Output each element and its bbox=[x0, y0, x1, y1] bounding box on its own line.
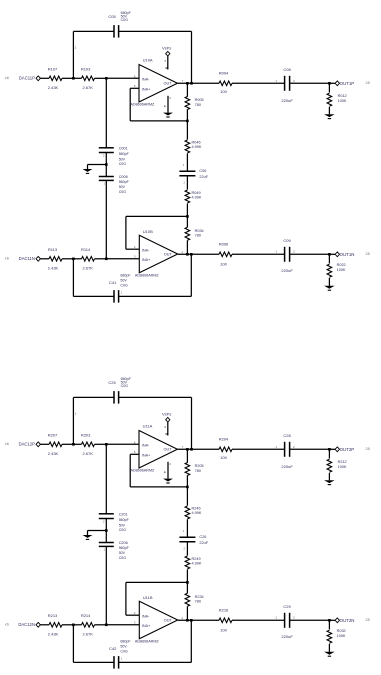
ground bbox=[324, 652, 335, 655]
svg-text:U11B: U11B bbox=[143, 595, 153, 600]
svg-text:4: 4 bbox=[169, 96, 171, 100]
svg-text:OUT: OUT bbox=[164, 253, 173, 257]
junction bbox=[186, 82, 189, 85]
svg-text:50V: 50V bbox=[120, 279, 127, 283]
resistor R032 100K shunt bbox=[328, 620, 330, 629]
svg-text:28: 28 bbox=[366, 618, 370, 622]
wire bbox=[72, 397, 74, 444]
port OUT1N bbox=[329, 253, 335, 255]
svg-text:100K: 100K bbox=[338, 99, 347, 103]
capacitor C206 560pF bbox=[105, 531, 107, 543]
svg-text:5: 5 bbox=[134, 84, 136, 88]
svg-text:C0G: C0G bbox=[121, 18, 129, 22]
svg-text:R214: R214 bbox=[81, 613, 91, 618]
svg-text:2: 2 bbox=[293, 616, 295, 620]
svg-text:2.67K: 2.67K bbox=[82, 266, 93, 271]
svg-text:1: 1 bbox=[103, 181, 105, 185]
svg-text:680pF: 680pF bbox=[120, 273, 131, 277]
junction bbox=[105, 258, 108, 261]
svg-text:INA-: INA- bbox=[142, 444, 150, 448]
svg-text:22uF: 22uF bbox=[199, 541, 208, 545]
svg-text:50V: 50V bbox=[120, 645, 127, 649]
ground bbox=[324, 114, 335, 117]
svg-text:1: 1 bbox=[181, 250, 183, 254]
capacitor C006 560pF bbox=[105, 165, 107, 177]
junction bbox=[328, 619, 331, 622]
svg-text:R114: R114 bbox=[81, 247, 91, 252]
svg-text:220uF: 220uF bbox=[281, 98, 293, 103]
svg-text:C08: C08 bbox=[283, 67, 291, 72]
ground bbox=[167, 462, 169, 479]
resistor R049 4.99K bbox=[186, 176, 188, 190]
resistor R005 780 bbox=[186, 83, 188, 96]
svg-text:2: 2 bbox=[103, 153, 105, 157]
svg-text:OUT2P: OUT2P bbox=[340, 447, 355, 452]
ground bbox=[324, 286, 335, 289]
svg-text:DAC12P: DAC12P bbox=[19, 442, 35, 447]
svg-text:4: 4 bbox=[169, 462, 171, 466]
resistor R012 100K shunt bbox=[328, 83, 330, 92]
svg-text:1: 1 bbox=[183, 529, 185, 533]
svg-text:INA+: INA+ bbox=[142, 453, 151, 457]
capacitor C05 680pF bbox=[73, 30, 114, 32]
svg-text:2.43K: 2.43K bbox=[48, 451, 59, 456]
wire bbox=[106, 258, 139, 260]
svg-text:1: 1 bbox=[121, 291, 123, 295]
svg-text:100: 100 bbox=[220, 455, 227, 460]
wire bbox=[178, 619, 219, 621]
junction bbox=[328, 253, 331, 256]
svg-text:560pF: 560pF bbox=[119, 546, 130, 550]
resistor R203 2.67K bbox=[73, 443, 81, 445]
wire bbox=[72, 259, 74, 297]
resistor R204 100 bbox=[219, 447, 232, 452]
svg-text:3: 3 bbox=[134, 255, 136, 259]
svg-text:C25: C25 bbox=[108, 380, 116, 385]
svg-text:100: 100 bbox=[220, 627, 227, 632]
svg-text:C0G: C0G bbox=[121, 384, 129, 388]
junction bbox=[328, 82, 331, 85]
svg-text:R004: R004 bbox=[219, 71, 229, 76]
svg-text:x6: x6 bbox=[5, 76, 9, 80]
svg-text:560pF: 560pF bbox=[119, 518, 130, 522]
svg-text:R107: R107 bbox=[48, 67, 58, 72]
svg-text:AD8606ARMZ: AD8606ARMZ bbox=[131, 468, 156, 472]
wire bbox=[177, 82, 219, 84]
svg-text:INA+: INA+ bbox=[142, 87, 151, 91]
svg-text:7: 7 bbox=[182, 79, 184, 83]
op-amp U10A AD8606ARMZ bbox=[139, 65, 177, 103]
wire bbox=[40, 443, 42, 445]
svg-text:680pF: 680pF bbox=[120, 639, 131, 643]
junction bbox=[186, 253, 189, 256]
svg-text:INA+: INA+ bbox=[142, 624, 151, 628]
capacitor C25 680pF bbox=[73, 396, 114, 398]
junction bbox=[105, 624, 108, 627]
svg-text:R022: R022 bbox=[337, 263, 346, 267]
resistor R004 100 bbox=[219, 81, 232, 86]
port OUT2P bbox=[329, 448, 335, 450]
resistor R034 780 bbox=[186, 216, 188, 227]
wire bbox=[72, 31, 74, 78]
svg-text:2.67K: 2.67K bbox=[82, 85, 93, 90]
svg-text:4.99K: 4.99K bbox=[192, 511, 202, 515]
svg-text:1: 1 bbox=[275, 445, 277, 449]
capacitor C29 220uF bbox=[284, 613, 286, 628]
junction bbox=[105, 163, 108, 166]
svg-text:2: 2 bbox=[293, 250, 295, 254]
capacitor C42 680pF bbox=[119, 661, 192, 663]
resistor R006 100 bbox=[219, 252, 232, 257]
svg-text:C206: C206 bbox=[119, 541, 128, 545]
svg-text:1: 1 bbox=[183, 163, 185, 167]
svg-text:R205: R205 bbox=[195, 464, 204, 468]
resistor R207 2.43K bbox=[43, 443, 50, 445]
junction bbox=[105, 443, 108, 446]
svg-text:C001: C001 bbox=[119, 146, 128, 150]
svg-text:R032: R032 bbox=[337, 629, 346, 633]
svg-text:2.67K: 2.67K bbox=[82, 632, 93, 637]
resistor R249 4.99K bbox=[186, 542, 188, 556]
op-amp U10B AD8606ARMZ bbox=[139, 235, 177, 273]
capacitor C28 220uF bbox=[284, 442, 286, 457]
resistor R103 2.67K bbox=[73, 77, 81, 79]
svg-text:C0G: C0G bbox=[120, 284, 128, 288]
svg-text:3: 3 bbox=[134, 621, 136, 625]
svg-text:1: 1 bbox=[275, 250, 277, 254]
capacitor C001 560pF bbox=[99, 147, 114, 149]
svg-text:C0G: C0G bbox=[120, 650, 128, 654]
svg-text:2: 2 bbox=[293, 79, 295, 83]
svg-text:R234: R234 bbox=[195, 595, 204, 599]
svg-text:2.43K: 2.43K bbox=[48, 632, 59, 637]
svg-text:x6: x6 bbox=[5, 442, 9, 446]
svg-text:C09: C09 bbox=[283, 238, 291, 243]
svg-text:560pF: 560pF bbox=[119, 152, 130, 156]
wire bbox=[105, 519, 107, 531]
resistor R246 4.99K bbox=[186, 487, 188, 506]
svg-text:50V: 50V bbox=[119, 185, 126, 189]
svg-text:8: 8 bbox=[164, 425, 166, 429]
svg-text:1: 1 bbox=[275, 616, 277, 620]
wire bbox=[105, 546, 107, 624]
resistor R213 2.43K bbox=[40, 624, 49, 626]
junction node A bbox=[186, 486, 189, 489]
op-amp IN- feedback wire bbox=[126, 248, 139, 250]
wire bbox=[106, 77, 139, 79]
svg-text:100: 100 bbox=[220, 261, 227, 266]
svg-text:R249: R249 bbox=[192, 557, 201, 561]
svg-text:OUT: OUT bbox=[164, 448, 173, 452]
svg-text:AD8606ARMZ: AD8606ARMZ bbox=[131, 102, 156, 106]
op-amp IN+ feedback wire bbox=[130, 453, 139, 455]
svg-text:C41: C41 bbox=[109, 280, 117, 285]
svg-text:2: 2 bbox=[184, 181, 186, 185]
svg-text:22uF: 22uF bbox=[199, 175, 208, 179]
svg-text:C42: C42 bbox=[109, 646, 117, 651]
wire bbox=[191, 31, 193, 83]
svg-text:VsPs: VsPs bbox=[162, 45, 171, 50]
resistor R114 2.67K bbox=[73, 258, 81, 260]
svg-text:VsPs: VsPs bbox=[162, 411, 171, 416]
svg-text:OUT2N: OUT2N bbox=[340, 618, 355, 623]
op-amp U11B AD8606ARMZ bbox=[139, 601, 177, 639]
resistor R234 780 bbox=[186, 582, 188, 593]
op-amp U11A AD8606ARMZ bbox=[139, 431, 177, 469]
svg-text:R049: R049 bbox=[192, 191, 201, 195]
junction node A bbox=[186, 120, 189, 123]
svg-text:x6: x6 bbox=[5, 623, 9, 627]
resistor R212 100K shunt bbox=[328, 449, 330, 458]
svg-text:780: 780 bbox=[195, 233, 201, 237]
svg-text:AD8606ARMZ: AD8606ARMZ bbox=[135, 639, 160, 643]
svg-text:C29: C29 bbox=[283, 604, 291, 609]
svg-text:x6: x6 bbox=[5, 257, 9, 261]
svg-text:C26: C26 bbox=[199, 535, 206, 539]
svg-text:8: 8 bbox=[164, 59, 166, 63]
port OUT2N bbox=[329, 619, 335, 621]
svg-text:INA-: INA- bbox=[142, 78, 150, 82]
svg-text:4.99K: 4.99K bbox=[192, 196, 202, 200]
op-amp IN- feedback wire bbox=[126, 614, 139, 616]
svg-text:R034: R034 bbox=[195, 229, 204, 233]
resistor R046 4.99K bbox=[186, 121, 188, 140]
svg-text:R212: R212 bbox=[338, 460, 347, 464]
junction node B bbox=[186, 581, 189, 584]
svg-text:780: 780 bbox=[195, 103, 201, 107]
svg-text:OUT1N: OUT1N bbox=[340, 252, 355, 257]
resistor R113 2.43K bbox=[40, 258, 49, 260]
capacitor C26 22uF bbox=[179, 536, 195, 538]
svg-text:OUT: OUT bbox=[164, 619, 173, 623]
svg-text:U10A: U10A bbox=[143, 57, 153, 62]
wire bbox=[106, 443, 139, 445]
svg-text:R046: R046 bbox=[192, 141, 201, 145]
svg-text:5: 5 bbox=[134, 450, 136, 454]
capacitor C41 680pF bbox=[119, 295, 192, 297]
svg-text:DAC11N: DAC11N bbox=[19, 256, 35, 261]
junction node B bbox=[186, 215, 189, 218]
svg-text:R207: R207 bbox=[48, 433, 58, 438]
capacitor C09 220uF bbox=[284, 247, 286, 262]
svg-text:U11A: U11A bbox=[143, 423, 153, 428]
svg-text:AD8606ARMZ: AD8606ARMZ bbox=[135, 273, 160, 277]
svg-text:DAC11P: DAC11P bbox=[19, 76, 35, 81]
svg-text:INA-: INA- bbox=[142, 248, 150, 252]
capacitor C201 560pF bbox=[99, 513, 114, 515]
wire bbox=[105, 78, 107, 148]
svg-text:2: 2 bbox=[103, 519, 105, 523]
svg-text:C0G: C0G bbox=[119, 190, 127, 194]
ground bbox=[88, 530, 107, 532]
svg-text:1: 1 bbox=[103, 547, 105, 551]
ground bbox=[88, 164, 107, 166]
svg-text:28: 28 bbox=[366, 252, 370, 256]
svg-text:780: 780 bbox=[195, 469, 201, 473]
svg-text:OUT: OUT bbox=[164, 82, 173, 86]
junction bbox=[186, 448, 189, 451]
svg-text:1: 1 bbox=[181, 616, 183, 620]
svg-text:100K: 100K bbox=[337, 634, 346, 638]
svg-text:R006: R006 bbox=[219, 242, 229, 247]
resistor R214 2.67K bbox=[73, 624, 81, 626]
svg-text:28: 28 bbox=[366, 81, 370, 85]
wire bbox=[106, 624, 139, 626]
resistor R107 2.43K bbox=[43, 77, 50, 79]
svg-text:100: 100 bbox=[220, 89, 227, 94]
resistor R205 780 bbox=[186, 449, 188, 462]
junction bbox=[328, 448, 331, 451]
svg-text:220uF: 220uF bbox=[281, 268, 293, 273]
svg-text:2: 2 bbox=[75, 412, 77, 416]
capacitor C08 220uF bbox=[284, 76, 286, 91]
svg-text:2: 2 bbox=[293, 445, 295, 449]
resistor R022 100K shunt bbox=[328, 254, 330, 263]
svg-text:C0G: C0G bbox=[119, 528, 127, 532]
svg-text:C28: C28 bbox=[283, 433, 291, 438]
svg-text:R012: R012 bbox=[338, 94, 347, 98]
svg-text:28: 28 bbox=[366, 447, 370, 451]
wire bbox=[178, 253, 219, 255]
wire bbox=[105, 180, 107, 258]
svg-text:100K: 100K bbox=[338, 465, 347, 469]
svg-text:R005: R005 bbox=[195, 98, 204, 102]
svg-text:C0G: C0G bbox=[119, 162, 127, 166]
svg-text:1: 1 bbox=[275, 79, 277, 83]
svg-text:C0G: C0G bbox=[119, 556, 127, 560]
svg-text:7: 7 bbox=[182, 445, 184, 449]
svg-text:R246: R246 bbox=[192, 507, 201, 511]
svg-text:R216: R216 bbox=[219, 608, 229, 613]
svg-text:50V: 50V bbox=[119, 523, 126, 527]
svg-text:C006: C006 bbox=[119, 175, 128, 179]
junction bbox=[105, 77, 108, 80]
svg-text:C06: C06 bbox=[199, 169, 206, 173]
svg-text:2.67K: 2.67K bbox=[82, 451, 93, 456]
wire bbox=[105, 153, 107, 165]
svg-text:50V: 50V bbox=[119, 551, 126, 555]
svg-text:OUT1P: OUT1P bbox=[340, 81, 355, 86]
ground bbox=[324, 480, 335, 483]
svg-text:100K: 100K bbox=[337, 268, 346, 272]
svg-text:U10B: U10B bbox=[143, 229, 153, 234]
svg-text:R113: R113 bbox=[48, 247, 58, 252]
svg-text:2.43K: 2.43K bbox=[48, 85, 59, 90]
op-amp IN+ feedback wire bbox=[130, 87, 139, 89]
wire bbox=[191, 397, 193, 449]
junction bbox=[186, 619, 189, 622]
junction bbox=[72, 258, 75, 261]
wire bbox=[105, 444, 107, 514]
svg-text:1: 1 bbox=[121, 657, 123, 661]
svg-text:4.99K: 4.99K bbox=[192, 145, 202, 149]
svg-text:560pF: 560pF bbox=[119, 180, 130, 184]
svg-text:4.99K: 4.99K bbox=[192, 562, 202, 566]
junction bbox=[72, 443, 75, 446]
capacitor C06 22uF bbox=[179, 170, 195, 172]
svg-text:R213: R213 bbox=[48, 613, 58, 618]
wire bbox=[40, 77, 42, 79]
svg-text:INA-: INA- bbox=[142, 614, 150, 618]
wire bbox=[177, 448, 219, 450]
wire bbox=[190, 254, 192, 296]
svg-text:R203: R203 bbox=[81, 433, 91, 438]
svg-text:2: 2 bbox=[184, 547, 186, 551]
svg-text:INA+: INA+ bbox=[142, 258, 151, 262]
junction bbox=[105, 529, 108, 532]
svg-text:R103: R103 bbox=[81, 67, 91, 72]
svg-text:DAC12N: DAC12N bbox=[18, 622, 35, 627]
wire bbox=[190, 620, 192, 662]
resistor R216 100 bbox=[219, 618, 232, 623]
svg-text:50V: 50V bbox=[119, 157, 126, 161]
ground bbox=[167, 96, 169, 113]
svg-text:220uF: 220uF bbox=[281, 464, 293, 469]
svg-text:R204: R204 bbox=[219, 437, 229, 442]
junction bbox=[72, 77, 75, 80]
svg-text:C05: C05 bbox=[108, 14, 116, 19]
svg-text:2.43K: 2.43K bbox=[48, 266, 59, 271]
svg-text:2: 2 bbox=[75, 46, 77, 50]
port OUT1P bbox=[329, 82, 335, 84]
svg-text:C201: C201 bbox=[119, 512, 128, 516]
svg-text:780: 780 bbox=[195, 599, 201, 603]
junction bbox=[72, 624, 75, 627]
svg-text:220uF: 220uF bbox=[281, 634, 293, 639]
wire bbox=[72, 625, 74, 663]
